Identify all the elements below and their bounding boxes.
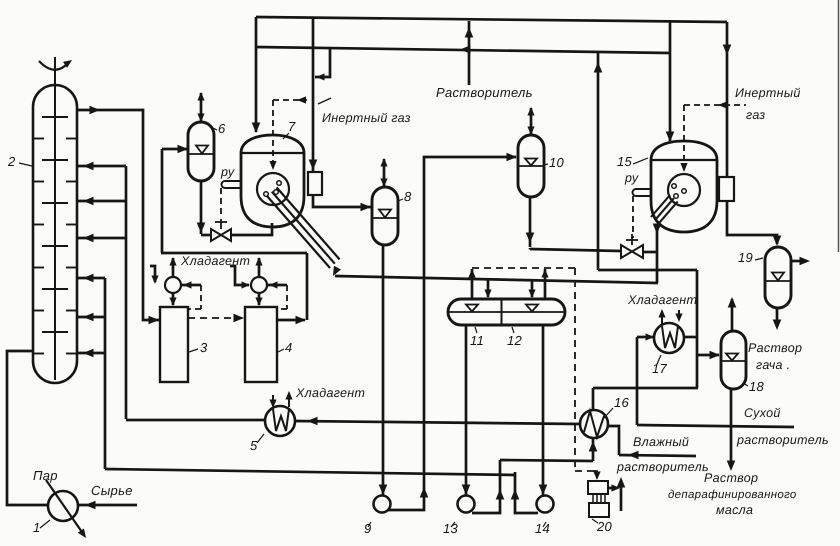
wire solvent return main (295, 417, 580, 426)
svg-text:20: 20 (596, 519, 613, 534)
svg-text:Пар: Пар (33, 468, 58, 483)
drum 15 dome (651, 141, 717, 160)
svg-text:4: 4 (285, 340, 293, 355)
wire vessel 6 drain to valve (197, 181, 212, 235)
svg-text:14: 14 (535, 521, 550, 536)
valve V-right (621, 234, 643, 258)
label rastvoritel dry (736, 433, 829, 447)
refrigerant A lines (150, 257, 201, 306)
wire vessel 8 drain / pump 9 suction (379, 245, 388, 495)
wire vessel 10 drain (526, 197, 535, 250)
drum 15 chutes (651, 195, 678, 224)
pump 14 suction (539, 325, 548, 495)
svg-text:16: 16 (614, 395, 630, 410)
vessel 10 vent (527, 107, 534, 135)
svg-text:6: 6 (218, 121, 226, 136)
svg-text:5: 5 (250, 438, 258, 453)
svg-text:7: 7 (288, 119, 296, 134)
crystallizer 3 (160, 307, 188, 382)
drum 7 side rectangle (308, 172, 322, 195)
vessel 19 gas outlet (791, 257, 810, 266)
vessel 8 vent (380, 158, 387, 187)
HX17 outlet (684, 336, 697, 339)
svg-text:19: 19 (738, 250, 753, 265)
header line 1 (256, 17, 727, 22)
label 6 (213, 121, 226, 136)
label Rastvor gacha (748, 341, 802, 372)
wet solvent line (619, 451, 696, 460)
svg-text:Хладагент: Хладагент (180, 254, 250, 268)
vessel 19 bottoms arrow (773, 308, 782, 330)
wire feed stub 12 (528, 280, 535, 298)
label Khladagent 1 (180, 254, 250, 268)
crystallizer 4 (245, 307, 277, 382)
vapor arrow near 20 (617, 477, 626, 511)
label 3 (189, 340, 208, 355)
vessel 10 (518, 135, 544, 197)
drum 7 chutes (267, 187, 341, 277)
wire pump13 to HX16 (500, 460, 593, 461)
vessel 6 (188, 122, 214, 181)
svg-text:Сухой: Сухой (744, 406, 781, 420)
label 11 (470, 327, 484, 348)
svg-text:растворитель: растворитель (616, 460, 709, 474)
drum 7 dome (241, 135, 304, 153)
vessel 18 (721, 331, 746, 389)
ejector 20 lower (589, 503, 609, 517)
label 13 (443, 521, 459, 536)
dashed loop B (277, 285, 287, 309)
wire HX5 outlet to V1 (126, 419, 265, 422)
svg-text:газ: газ (746, 108, 765, 122)
column trays (33, 117, 77, 354)
wire line1 to drum 15 top (666, 21, 675, 142)
HX16 top line (593, 388, 698, 410)
HX5 refrigerant lines (269, 391, 292, 408)
header line 2 (256, 45, 670, 54)
ejector 20 outlet (608, 484, 620, 491)
dashed to ejector (589, 471, 601, 480)
svg-text:1: 1 (33, 520, 41, 535)
label 4 (278, 340, 293, 355)
svg-text:Раствор: Раствор (704, 471, 758, 485)
HX17 inlet (637, 333, 654, 340)
vessel 18 bottoms (727, 389, 736, 471)
wire feed to vessel 18 (697, 351, 720, 360)
vessel 6 vent (197, 92, 204, 122)
heat-exchanger 17 (654, 323, 684, 353)
ejector 20 upper (588, 481, 608, 494)
label 14 (535, 521, 550, 536)
wire inert gas top feed to drum 7 (252, 17, 261, 133)
label Vlazhny (633, 435, 689, 449)
svg-text:Влажный: Влажный (633, 435, 689, 449)
svg-text:3: 3 (200, 340, 208, 355)
label Rastvor maslo (668, 471, 797, 517)
column K-2 rotation arrow (39, 57, 74, 70)
column K-2 body (33, 85, 77, 383)
wire inert gas right down (723, 22, 732, 177)
drum 15 chute drain (653, 224, 662, 284)
heat-exchanger 1 (46, 480, 89, 540)
svg-text:Инертный газ: Инертный газ (322, 111, 411, 125)
label 5 (250, 434, 264, 453)
svg-text:Растворитель: Растворитель (436, 85, 533, 100)
svg-text:масла: масла (716, 503, 753, 517)
svg-text:растворитель: растворитель (736, 433, 829, 447)
stub ru on drum 7 (222, 181, 241, 188)
label 1 (33, 520, 50, 535)
label 9 (364, 521, 372, 536)
label 16 (604, 395, 630, 418)
wire vapor stub 11 (468, 269, 475, 299)
HX16 bottom riser (589, 439, 598, 461)
wire solvent x598 elbow (598, 269, 697, 272)
refrigerant circle B (251, 277, 267, 293)
pump 14 discharge (511, 472, 538, 513)
stub ru on drum 15 (633, 189, 652, 196)
ejector 20 hatch (593, 494, 605, 503)
filtrate header (335, 276, 658, 283)
dry solvent line (637, 425, 794, 427)
svg-text:ру: ру (624, 171, 639, 185)
pump 14 (537, 496, 554, 513)
dry solvent riser (636, 337, 639, 425)
svg-text:ру: ру (220, 165, 235, 179)
vessel 8 (372, 187, 398, 245)
label Sukhoy (744, 406, 781, 420)
drum 7 inner filter circle (257, 173, 289, 205)
wire rect15 to vessel 19 (727, 201, 781, 246)
svg-text:2: 2 (7, 154, 16, 169)
vessel 19 (765, 247, 791, 308)
label 8 (398, 189, 412, 204)
svg-text:Раствор: Раствор (748, 341, 802, 355)
wire header to vessel 6 (161, 252, 307, 255)
label 19 (738, 250, 763, 265)
label 18 (743, 379, 765, 394)
svg-text:11: 11 (470, 333, 484, 348)
pump 13 suction (462, 325, 471, 495)
svg-text:15: 15 (617, 154, 633, 169)
heat-exchanger 5 (265, 406, 295, 436)
dashed control line ru-left (220, 188, 222, 218)
svg-text:Инертный: Инертный (735, 86, 801, 100)
vessel 18 vent (728, 297, 737, 331)
wire vapor stub 12 (541, 269, 548, 300)
label 12 (507, 327, 523, 348)
wire line1 tap down to rect7 (309, 18, 330, 172)
dashed control line ru-right (632, 196, 634, 238)
drum 7 body (241, 153, 304, 227)
svg-text:Хладагент: Хладагент (627, 293, 697, 307)
svg-text:18: 18 (749, 379, 765, 394)
label 2 (7, 154, 32, 169)
pump 9 discharge (388, 153, 517, 510)
label Par (33, 468, 58, 483)
dashed inert gas into drum 7 (269, 96, 307, 170)
svg-text:13: 13 (443, 521, 459, 536)
svg-text:гача .: гача . (756, 358, 790, 372)
label Inertny gaz left (318, 98, 411, 125)
svg-text:Хладагент: Хладагент (295, 386, 365, 400)
dashed transfer 3 to 4 (188, 314, 244, 323)
label Syrye (91, 483, 133, 498)
wire feed to vessel 6 (162, 145, 188, 253)
wire valve to drum 7 bottom (230, 223, 272, 235)
label 17 (652, 355, 668, 376)
svg-text:12: 12 (507, 333, 523, 348)
label 10 (544, 155, 565, 170)
label Rastvoritel top (436, 85, 533, 100)
label 7 (283, 119, 296, 139)
solvent feed riser (465, 21, 474, 85)
label Khladagent 3 (627, 293, 697, 307)
label Khladagent 2 (295, 386, 365, 400)
label 15 (617, 154, 648, 169)
wire crystallizer 4 outlet (277, 253, 307, 324)
drum 15 body (651, 160, 717, 232)
label rastvoritel wet (616, 460, 709, 474)
wire V0 into column (3 arrows) (77, 274, 105, 469)
wire feed stub 11 (484, 279, 491, 298)
vessel 11-12 shell (448, 299, 565, 325)
wire x697 vertical (696, 270, 699, 388)
dashed vacuum line (472, 268, 589, 471)
wire reflux V1 into column (3 arrows) (77, 162, 126, 419)
pump 13 (458, 496, 475, 513)
label ru left (220, 165, 235, 179)
wire column overhead to crystallizer 3 (77, 106, 159, 325)
dashed inert gas into drum 15 (680, 101, 746, 172)
wire column bottoms to heater 1 (7, 351, 48, 505)
wire valve feed line (530, 249, 621, 251)
wire recovered solvent riser x598 (594, 52, 603, 271)
wire valve to junction (643, 251, 658, 254)
cold filtrate return header (105, 469, 515, 475)
HX17 refrigerant lines (658, 309, 682, 324)
svg-text:депарафинированного: депарафинированного (668, 489, 797, 501)
drum 15 inner filter circle (668, 174, 700, 206)
scan edge artifact (838, 0, 840, 252)
drum 15 side rectangle (719, 177, 734, 201)
valve V-left (211, 219, 231, 241)
label 20 (592, 519, 613, 534)
label Inertny gaz right (735, 86, 801, 122)
pump 13 discharge (472, 460, 504, 513)
label ru right (624, 171, 639, 185)
dashed loop A (188, 285, 201, 309)
svg-text:Сырье: Сырье (91, 483, 133, 498)
refrigerant circle A (165, 277, 181, 293)
wire rect7 to vessel 8 (313, 195, 371, 211)
svg-text:17: 17 (652, 361, 668, 376)
HX16 outlet right (608, 426, 619, 455)
svg-text:10: 10 (549, 155, 565, 170)
heat-exchanger 16 (580, 410, 608, 438)
pump 9 (374, 496, 391, 513)
svg-text:8: 8 (404, 189, 412, 204)
refrigerant B lines (230, 257, 287, 306)
feed line Syrye (78, 501, 137, 510)
column K-2 shaft (54, 57, 56, 380)
